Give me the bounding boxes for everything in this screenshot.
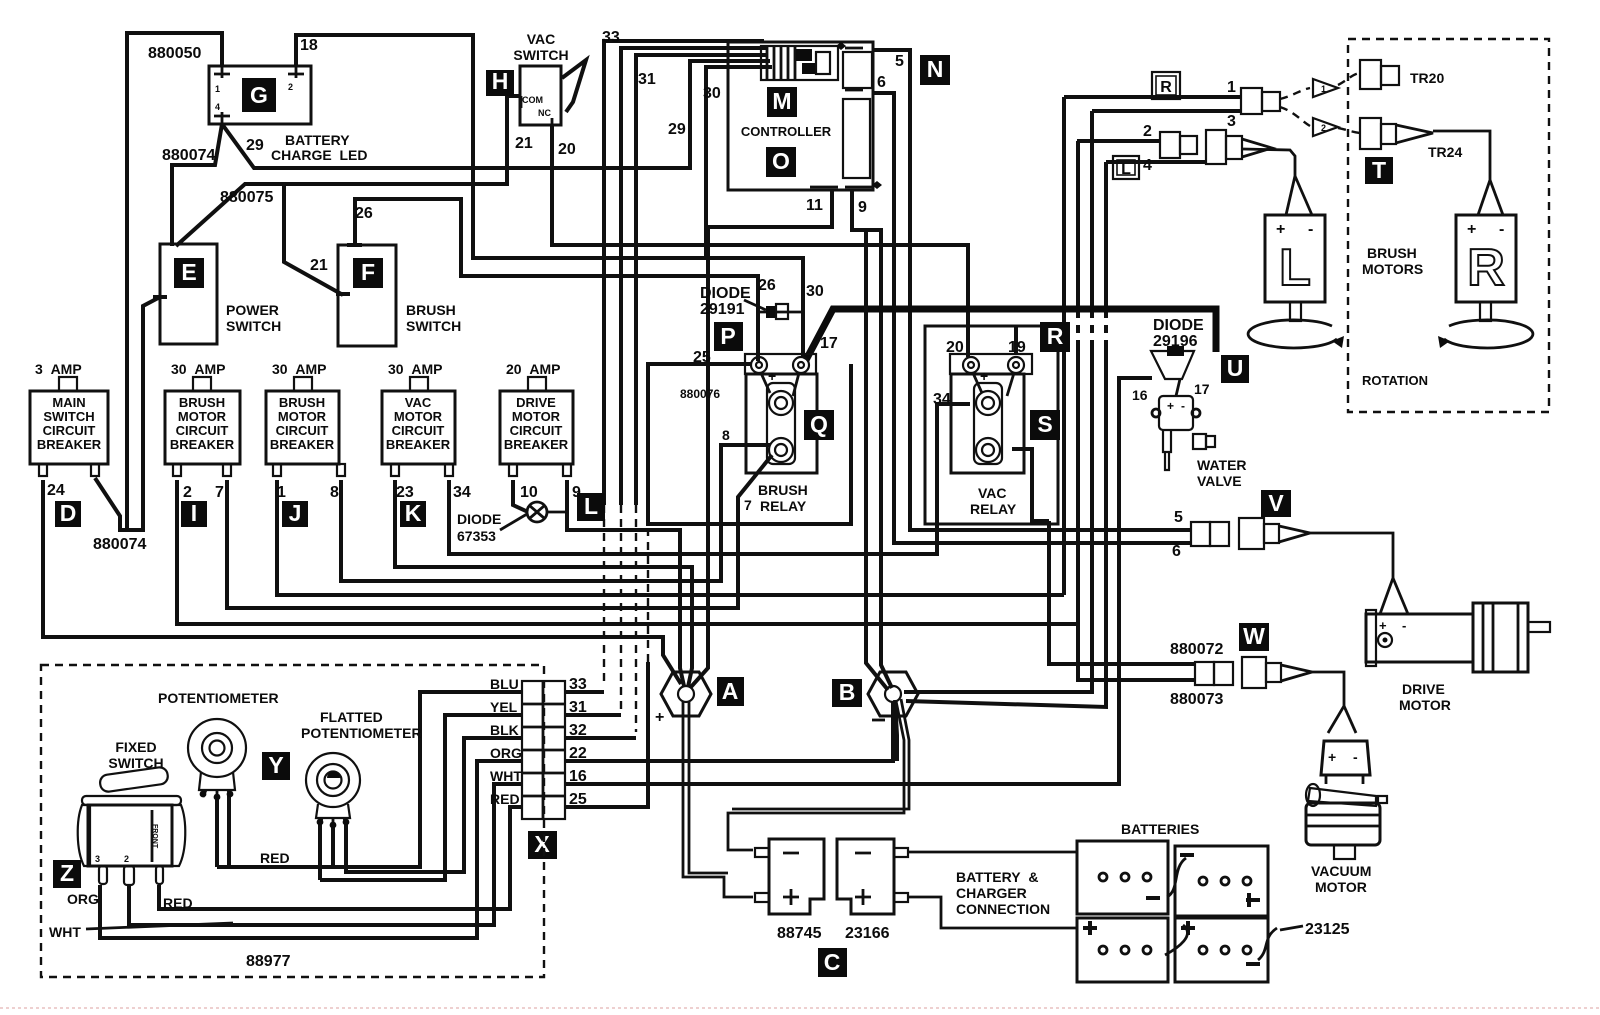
svg-text:WATER: WATER	[1197, 457, 1247, 473]
svg-text:CHARGE LED: CHARGE LED	[271, 147, 367, 163]
svg-text:VALVE: VALVE	[1197, 473, 1242, 489]
svg-text:21: 21	[310, 257, 328, 274]
svg-text:880076: 880076	[680, 387, 720, 401]
svg-text:RELAY: RELAY	[760, 498, 807, 514]
svg-text:BREAKER: BREAKER	[386, 437, 451, 452]
svg-text:A: A	[722, 678, 739, 704]
svg-text:VAC: VAC	[978, 485, 1007, 501]
svg-text:Y: Y	[268, 752, 283, 778]
svg-text:880072: 880072	[1170, 641, 1223, 658]
svg-text:FIXED: FIXED	[115, 739, 156, 755]
svg-text:G: G	[250, 82, 268, 108]
svg-text:8: 8	[330, 484, 339, 501]
svg-text:DRIVE: DRIVE	[1402, 681, 1445, 697]
svg-text:O: O	[772, 148, 790, 174]
svg-text:-: -	[1353, 749, 1358, 765]
svg-text:880050: 880050	[148, 45, 201, 62]
svg-text:V: V	[1268, 490, 1284, 516]
svg-text:+: +	[655, 709, 664, 726]
svg-text:3: 3	[95, 854, 100, 864]
svg-text:U: U	[1227, 355, 1244, 381]
svg-text:POTENTIOMETER: POTENTIOMETER	[158, 690, 279, 706]
svg-text:20: 20	[558, 141, 576, 158]
svg-text:3: 3	[1227, 113, 1236, 130]
svg-text:31: 31	[569, 699, 587, 716]
svg-text:30: 30	[806, 283, 824, 300]
svg-text:1: 1	[277, 484, 286, 501]
svg-text:Z: Z	[60, 860, 74, 886]
svg-text:30 AMP: 30 AMP	[388, 361, 442, 377]
svg-text:26: 26	[355, 205, 373, 222]
svg-text:L: L	[1121, 161, 1131, 178]
svg-text:+: +	[980, 368, 988, 384]
svg-text:7: 7	[215, 484, 224, 501]
svg-text:MOTORS: MOTORS	[1362, 261, 1423, 277]
svg-text:MOTOR: MOTOR	[512, 409, 561, 424]
svg-text:+: +	[1379, 618, 1387, 633]
svg-text:F: F	[361, 259, 375, 285]
svg-text:34: 34	[453, 484, 471, 501]
svg-text:10: 10	[520, 484, 538, 501]
svg-text:BATTERY &: BATTERY &	[956, 869, 1038, 885]
svg-text:1: 1	[215, 84, 220, 94]
svg-text:CONTROLLER: CONTROLLER	[741, 124, 832, 139]
svg-text:DIODE: DIODE	[700, 285, 751, 302]
svg-text:MOTOR: MOTOR	[1399, 697, 1451, 713]
svg-text:67353: 67353	[457, 528, 496, 544]
svg-text:CIRCUIT: CIRCUIT	[392, 423, 445, 438]
svg-text:880073: 880073	[1170, 691, 1223, 708]
svg-text:-: -	[1499, 221, 1504, 238]
svg-text:31: 31	[638, 71, 656, 88]
svg-text:88745: 88745	[777, 925, 822, 942]
svg-text:+: +	[1276, 221, 1285, 238]
svg-text:N: N	[927, 56, 944, 82]
svg-text:-: -	[1181, 399, 1185, 413]
svg-text:17: 17	[1194, 381, 1210, 397]
svg-text:34: 34	[933, 391, 951, 408]
svg-text:29191: 29191	[700, 301, 745, 318]
svg-text:RELAY: RELAY	[970, 501, 1017, 517]
svg-text:16: 16	[569, 768, 587, 785]
svg-text:BATTERY: BATTERY	[285, 132, 350, 148]
svg-text:23125: 23125	[1305, 921, 1350, 938]
svg-text:23: 23	[396, 484, 414, 501]
svg-text:C: C	[824, 949, 841, 975]
svg-text:I: I	[191, 500, 197, 526]
svg-text:DRIVE: DRIVE	[516, 395, 556, 410]
svg-text:WHT: WHT	[49, 924, 81, 940]
svg-text:DIODE: DIODE	[1153, 317, 1204, 334]
svg-text:MOTOR: MOTOR	[1315, 879, 1367, 895]
svg-text:+: +	[1328, 749, 1336, 765]
svg-text:BLU: BLU	[490, 676, 519, 692]
svg-text:WHT: WHT	[490, 768, 522, 784]
svg-text:B: B	[839, 679, 856, 705]
svg-text:33: 33	[569, 676, 587, 693]
svg-text:VACUUM: VACUUM	[1311, 863, 1371, 879]
svg-text:88977: 88977	[246, 953, 291, 970]
svg-text:11: 11	[806, 197, 823, 214]
svg-text:SWITCH: SWITCH	[43, 409, 94, 424]
svg-text:M: M	[772, 88, 791, 114]
svg-text:880074: 880074	[162, 147, 215, 164]
svg-text:K: K	[405, 500, 422, 526]
svg-text:X: X	[534, 831, 550, 857]
svg-text:30 AMP: 30 AMP	[171, 361, 225, 377]
svg-text:SWITCH: SWITCH	[226, 318, 281, 334]
svg-text:VAC: VAC	[405, 395, 432, 410]
svg-text:2: 2	[288, 82, 293, 92]
svg-text:DIODE: DIODE	[457, 511, 501, 527]
svg-text:COM: COM	[522, 95, 543, 105]
svg-text:R: R	[1047, 323, 1064, 349]
svg-text:FLATTED: FLATTED	[320, 709, 383, 725]
svg-text:L: L	[1279, 239, 1311, 297]
svg-text:BRUSH: BRUSH	[179, 395, 225, 410]
svg-text:CIRCUIT: CIRCUIT	[43, 423, 96, 438]
svg-text:7: 7	[744, 497, 752, 513]
svg-text:6: 6	[877, 74, 886, 91]
svg-text:6: 6	[1172, 543, 1181, 560]
svg-text:BREAKER: BREAKER	[170, 437, 235, 452]
svg-text:+: +	[1167, 399, 1174, 413]
svg-text:CIRCUIT: CIRCUIT	[510, 423, 563, 438]
svg-text:TR24: TR24	[1428, 144, 1462, 160]
svg-text:+: +	[768, 368, 776, 384]
svg-text:CIRCUIT: CIRCUIT	[276, 423, 329, 438]
svg-text:3 AMP: 3 AMP	[35, 361, 82, 377]
svg-text:25: 25	[693, 349, 711, 366]
svg-text:19: 19	[1008, 339, 1026, 356]
svg-text:ROTATION: ROTATION	[1362, 373, 1428, 388]
svg-text:1: 1	[1321, 84, 1326, 94]
svg-text:29: 29	[668, 121, 686, 138]
svg-text:RED: RED	[260, 850, 290, 866]
svg-text:20 AMP: 20 AMP	[506, 361, 560, 377]
svg-text:R: R	[1467, 239, 1505, 297]
svg-text:-: -	[1308, 221, 1313, 238]
svg-text:4: 4	[215, 102, 220, 112]
svg-text:S: S	[1037, 411, 1052, 437]
svg-text:MAIN: MAIN	[52, 395, 85, 410]
svg-text:16: 16	[1132, 387, 1148, 403]
svg-text:BLK: BLK	[490, 722, 519, 738]
svg-text:T: T	[1372, 157, 1386, 183]
svg-text:21: 21	[515, 135, 533, 152]
svg-text:25: 25	[569, 791, 587, 808]
svg-text:1: 1	[1227, 79, 1236, 96]
svg-text:26: 26	[758, 277, 776, 294]
svg-text:FRONT: FRONT	[151, 824, 158, 849]
svg-text:22: 22	[569, 745, 587, 762]
svg-text:SWITCH: SWITCH	[406, 318, 461, 334]
svg-text:BREAKER: BREAKER	[504, 437, 569, 452]
svg-text:MOTOR: MOTOR	[394, 409, 443, 424]
svg-text:CHARGER: CHARGER	[956, 885, 1027, 901]
svg-text:33: 33	[602, 29, 620, 46]
svg-text:H: H	[492, 68, 509, 94]
svg-text:BREAKER: BREAKER	[270, 437, 335, 452]
svg-text:BATTERIES: BATTERIES	[1121, 821, 1199, 837]
svg-text:17: 17	[820, 335, 838, 352]
svg-text:YEL: YEL	[490, 699, 518, 715]
svg-text:SWITCH: SWITCH	[108, 755, 163, 771]
svg-text:BREAKER: BREAKER	[37, 437, 102, 452]
svg-text:ORG: ORG	[67, 891, 99, 907]
svg-text:24: 24	[47, 482, 65, 499]
svg-text:RED: RED	[163, 895, 193, 911]
svg-text:L: L	[584, 493, 598, 519]
svg-text:20: 20	[946, 339, 964, 356]
svg-text:8: 8	[722, 427, 730, 443]
svg-text:9: 9	[858, 199, 867, 216]
svg-text:BRUSH: BRUSH	[279, 395, 325, 410]
svg-text:ORG: ORG	[490, 745, 522, 761]
svg-text:+: +	[1467, 221, 1476, 238]
svg-text:VAC: VAC	[527, 31, 556, 47]
svg-text:9: 9	[572, 484, 581, 501]
svg-text:30 AMP: 30 AMP	[272, 361, 326, 377]
svg-text:MOTOR: MOTOR	[178, 409, 227, 424]
svg-text:J: J	[289, 500, 302, 526]
svg-text:D: D	[60, 500, 77, 526]
svg-text:29: 29	[246, 137, 264, 154]
svg-text:880075: 880075	[220, 189, 273, 206]
svg-text:Q: Q	[810, 411, 828, 437]
svg-text:BRUSH: BRUSH	[406, 302, 456, 318]
svg-text:E: E	[181, 259, 196, 285]
svg-text:W: W	[1243, 623, 1265, 649]
svg-text:2: 2	[124, 854, 129, 864]
svg-text:5: 5	[895, 53, 904, 70]
svg-text:18: 18	[300, 37, 318, 54]
svg-text:SWITCH: SWITCH	[513, 47, 568, 63]
svg-text:-: -	[1402, 618, 1406, 633]
svg-text:NC: NC	[538, 108, 551, 118]
svg-text:880074: 880074	[93, 536, 146, 553]
svg-text:30: 30	[703, 85, 721, 102]
svg-text:CONNECTION: CONNECTION	[956, 901, 1050, 917]
svg-text:R: R	[1160, 79, 1172, 96]
svg-text:29196: 29196	[1153, 333, 1198, 350]
svg-text:POTENTIOMETER: POTENTIOMETER	[301, 725, 422, 741]
svg-text:23166: 23166	[845, 925, 890, 942]
svg-text:32: 32	[569, 722, 587, 739]
svg-text:RED: RED	[490, 791, 520, 807]
svg-text:BRUSH: BRUSH	[758, 482, 808, 498]
svg-text:2: 2	[1143, 123, 1152, 140]
svg-text:5: 5	[1174, 509, 1183, 526]
svg-text:2: 2	[183, 484, 192, 501]
svg-text:4: 4	[1143, 157, 1152, 174]
svg-text:MOTOR: MOTOR	[278, 409, 327, 424]
svg-text:CIRCUIT: CIRCUIT	[176, 423, 229, 438]
svg-text:2: 2	[1321, 123, 1326, 133]
svg-text:BRUSH: BRUSH	[1367, 245, 1417, 261]
svg-text:POWER: POWER	[226, 302, 279, 318]
svg-text:TR20: TR20	[1410, 70, 1444, 86]
svg-text:P: P	[720, 323, 735, 349]
